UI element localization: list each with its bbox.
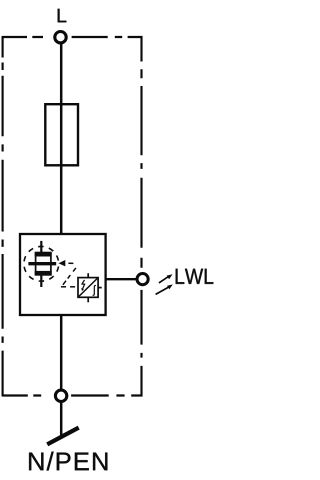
converter U2: lightning bolt (surge input)	[82, 280, 85, 289]
wire: protection module down to N/PEN terminal	[60, 315, 63, 389]
light emission arrow 2 (lower)	[156, 287, 169, 294]
wire: protection module to LWL terminal	[105, 278, 137, 280]
spark gap FS1: bottom stub	[40, 276, 42, 288]
spark gap FS1: middle insulating plate line	[28, 262, 56, 265]
fuse F1 (backup fuse rectangle)	[45, 104, 78, 165]
spark gap FS1: top stub	[40, 241, 42, 252]
protection module U1 (surge arrester box outline)	[20, 234, 106, 315]
terminal X3 (LWL fiber-optic output circle)	[137, 274, 148, 285]
light emission arrow 1 (upper)	[159, 276, 169, 283]
device enclosure dash-dot boundary: right side	[140, 36, 142, 397]
converter U2: integral (pulse) symbol	[93, 286, 96, 296]
converter U2: diagonal	[79, 279, 97, 297]
spark gap FS1: top electrode bar	[35, 252, 52, 257]
converter U2 (surge-to-light transducer box)	[78, 278, 98, 298]
label N/PEN	[29, 452, 107, 471]
label L (line conductor)	[58, 9, 67, 22]
terminal X2 (N/PEN terminal circle, bottom)	[55, 390, 66, 401]
spark gap FS1: electrode body sides	[36, 252, 51, 275]
actuation dashed link: spark gap to converter	[61, 263, 76, 287]
label LWL (fiber optic output)	[176, 269, 214, 284]
spark gap FS1: bottom electrode bar	[35, 271, 52, 276]
device enclosure dash-dot boundary: top side	[3, 36, 143, 38]
converter U2: right stub	[98, 287, 102, 289]
device enclosure dash-dot boundary: left side	[2, 36, 4, 397]
spark gap FS1: dashed circle enclosure	[24, 246, 59, 281]
N/PEN conductor stroke (slanted bar)	[47, 428, 78, 445]
converter U2: bottom stub	[87, 297, 89, 302]
terminal X1 (L input terminal circle, top)	[55, 32, 66, 43]
wire: bottom terminal to N/PEN conductor	[60, 402, 63, 438]
actuation arrowhead pointing at spark gap	[58, 260, 65, 266]
device enclosure dash-dot boundary: bottom side	[3, 394, 143, 396]
converter U2: top stub	[87, 273, 89, 277]
wire: top terminal down through fuse to protection-module box	[60, 43, 63, 234]
